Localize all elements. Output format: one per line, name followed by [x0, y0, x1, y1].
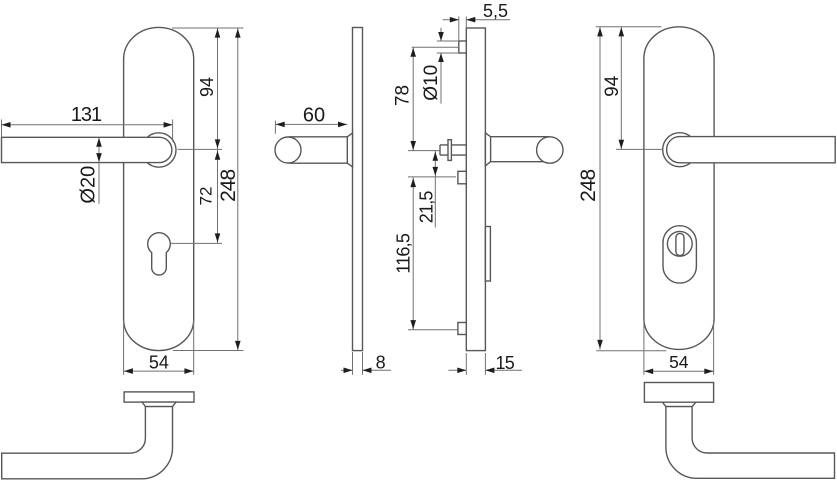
euro profile keyhole	[148, 233, 171, 275]
extension line lower boss centre	[408, 329, 458, 331]
dimension 54 right extension lines	[643, 320, 645, 375]
extension line plate top	[172, 27, 244, 29]
svg-text:5,5: 5,5	[483, 1, 508, 21]
svg-text:54: 54	[149, 353, 169, 373]
dimension 8 extension lines	[352, 352, 354, 375]
dimension 60 extension line	[274, 121, 276, 134]
dimension 72 line	[217, 149, 219, 243]
svg-text:94: 94	[602, 75, 623, 97]
cylinder cover disc	[667, 231, 692, 256]
svg-text:78: 78	[392, 85, 413, 106]
dimension 15 lines	[448, 369, 466, 371]
handle top view left	[2, 407, 173, 479]
dimension 15 extension lines	[465, 353, 467, 375]
handle top view right	[666, 407, 835, 479]
extension line lever centre right	[616, 148, 663, 150]
svg-text:248: 248	[577, 170, 600, 202]
svg-text:248: 248	[217, 170, 240, 202]
lever handle right view	[667, 137, 836, 163]
extension line plate bottom right	[596, 350, 666, 352]
extension line boss centre	[412, 46, 459, 48]
svg-text:94: 94	[197, 77, 217, 97]
svg-text:21,5: 21,5	[416, 191, 436, 224]
dimension 248 line right	[599, 27, 601, 350]
dimension 116,5 line	[412, 177, 414, 330]
rose disc top view right	[644, 383, 713, 403]
plate body left view	[124, 27, 194, 350]
dimension 60 line	[275, 123, 347, 125]
dimension 8 lines	[341, 369, 353, 371]
extension line keyhole centre	[171, 242, 222, 244]
lever handle left view	[2, 137, 172, 162]
dimension 54 line	[124, 370, 194, 372]
dimension 54 extension lines	[123, 320, 125, 375]
dimension diameter 10 arrows	[440, 28, 442, 41]
lower fixing boss	[458, 323, 466, 335]
extension line lever centre	[178, 148, 223, 150]
svg-text:54: 54	[669, 352, 689, 372]
dimension 131 extension lines	[1, 120, 3, 138]
handle ball end right	[537, 137, 563, 163]
svg-text:8: 8	[376, 353, 386, 373]
svg-text:72: 72	[196, 187, 215, 206]
svg-text:Ø20: Ø20	[78, 166, 100, 204]
lever collar ring right view	[663, 133, 697, 167]
handle ball end	[275, 137, 301, 163]
middle fixing boss	[458, 171, 466, 184]
dimension diameter 10 extension lines	[437, 40, 459, 42]
top fixing boss	[459, 41, 467, 53]
cylinder cover side strip	[485, 227, 490, 282]
handle grip side lines right	[491, 136, 550, 138]
dimension 54 right line	[644, 370, 714, 372]
svg-text:116,5: 116,5	[393, 233, 413, 273]
cylinder cover pill	[663, 226, 696, 283]
svg-text:Ø10: Ø10	[421, 65, 442, 101]
collar top view right	[662, 402, 696, 406]
extension line spindle centre	[408, 150, 440, 152]
spindle washer	[448, 140, 451, 161]
plate side 8mm	[353, 28, 363, 351]
collar top view left	[142, 402, 176, 407]
svg-text:131: 131	[71, 104, 102, 126]
svg-text:15: 15	[495, 353, 514, 373]
handle grip side lines	[289, 136, 347, 138]
rose disc top view left	[124, 392, 194, 402]
handle collar side right	[485, 133, 490, 166]
lever collar ring left view	[142, 133, 176, 167]
plate body right view	[644, 27, 714, 350]
dimension diameter 20 line	[98, 138, 100, 204]
svg-text:60: 60	[303, 104, 325, 126]
dimension 5,5 extension lines	[458, 17, 460, 42]
dimension 21,5 line	[434, 151, 436, 228]
cylinder cover screw slot	[676, 233, 684, 255]
dimension 94 line right	[620, 27, 622, 150]
plate side 15mm	[466, 28, 485, 351]
spindle rod	[440, 144, 466, 146]
dimension 94 line	[217, 28, 219, 149]
extension line middle boss centre	[408, 176, 456, 178]
extension line plate bottom	[173, 350, 244, 352]
handle collar side	[347, 133, 352, 167]
dimension 131 line	[2, 124, 173, 126]
extension line plate top right	[596, 26, 662, 28]
dimension 248 line	[237, 28, 239, 351]
dimension 5,5 lines	[443, 19, 459, 21]
dimension 78 line	[412, 47, 414, 150]
